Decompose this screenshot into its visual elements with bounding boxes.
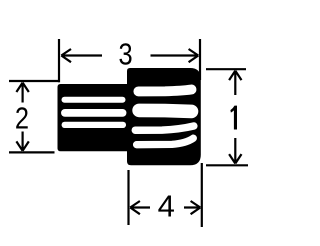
svg-text:3: 3 [119, 37, 133, 72]
knurl slot R2 [139, 110, 191, 111]
dim 4: left extension line [127, 170, 129, 225]
dim 3: left extension line [58, 39, 60, 82]
dim 4: right arrow [184, 201, 200, 214]
part silhouette: left ribbed body [58, 84, 129, 151]
knurl slot R3 (curves up at right) [135, 126, 194, 130]
dim 3: left arrow [61, 49, 102, 62]
svg-text:2: 2 [15, 101, 29, 136]
dim 1: up arrow [229, 71, 241, 95]
knurl slot R1 [138, 90, 191, 92]
rib slot L1 [65, 97, 123, 103]
dim 1: down arrow [229, 138, 241, 164]
knurl slot R4 (curves up at right) [137, 138, 194, 145]
svg-text:4: 4 [158, 189, 175, 224]
dim 2: down arrow [16, 132, 28, 151]
dim 4: left arrow [130, 201, 150, 214]
dim 4: right extension line [201, 163, 203, 227]
dim 3: right arrow [151, 49, 199, 62]
dim 1: bottom extension line [206, 164, 248, 166]
part silhouette: right knurled head [127, 68, 201, 165]
dim 1: top extension line [206, 68, 246, 70]
dim 2: up arrow [16, 83, 28, 103]
rib slot L2 [65, 109, 123, 117]
dim 3: right extension line [199, 39, 201, 80]
dim 2: top extension line [9, 80, 60, 82]
label 1 [230, 106, 237, 130]
dim 2: bottom extension line [9, 151, 55, 153]
rib slot L3 [65, 122, 123, 128]
